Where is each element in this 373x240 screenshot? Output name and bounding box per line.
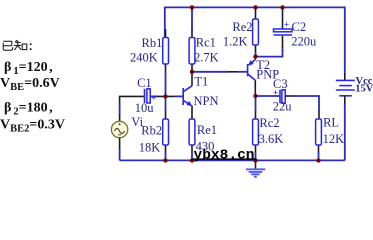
svg-text:2.7K: 2.7K [194,50,219,64]
svg-text:12K: 12K [323,132,345,146]
resistor Rc2 3.6K [253,96,284,160]
svg-text:C1: C1 [137,76,152,90]
capacitor C2 220u [274,7,318,48]
junction T2 emitter node [253,54,257,58]
junction RL bottom [316,158,320,162]
svg-text:22u: 22u [273,99,293,113]
note 已知: heading (drawn CJK strokes) [3,40,31,50]
svg-text:C3: C3 [273,77,288,91]
svg-text:NPN: NPN [194,94,219,108]
capacitor C1 10u [135,76,157,115]
wire top rail Vcc net [165,7,345,73]
svg-text:RL: RL [323,116,339,130]
svg-text:C2: C2 [292,20,307,34]
svg-text:Rc2: Rc2 [259,116,279,130]
svg-text:Re1: Re1 [197,123,217,137]
svg-text:Re2: Re2 [232,20,252,34]
svg-text:β1=120,: β1=120, [4,60,53,77]
svg-text:18K: 18K [139,140,161,154]
svg-text:220u: 220u [291,34,317,48]
svg-text:Rb1: Rb1 [142,36,163,50]
junction T2 collector output node [253,94,257,98]
resistor Re1 430 [189,119,217,160]
wire C3 to RL [285,95,295,97]
junction Rc1 top rail [190,5,194,9]
svg-text:T1: T1 [194,74,208,88]
junction C2 top rail [280,5,284,9]
wire C2 bottom to emitter node [256,47,283,57]
resistor Rb1 240K [130,29,169,96]
wire right rail lower [344,96,346,104]
ground [246,160,265,176]
svg-text:VBE=0.6V: VBE=0.6V [0,76,60,93]
junction Rb2 bottom [163,158,167,162]
wire T1 collector to T2 base [192,71,229,73]
junction ground node [253,158,257,162]
source Vi [111,115,143,160]
svg-text:Rb2: Rb2 [141,123,162,137]
resistor Re2 1.2K [223,7,259,56]
svg-text:10u: 10u [135,101,155,115]
svg-text:+: + [284,20,289,30]
wire output node to C3 [256,95,280,97]
transistor T2 PNP [248,57,280,96]
junction T1 collector node [190,70,194,74]
junction T1 base node [163,94,167,98]
resistor Rc1 2.7K [189,7,219,71]
svg-text:ybx8.cn: ybx8.cn [194,148,255,163]
junction Re1 bottom [190,158,194,162]
transistor T1 NPN [183,72,218,119]
svg-text:240K: 240K [130,50,158,64]
svg-text:1.2K: 1.2K [223,35,248,49]
svg-text:Rc1: Rc1 [196,36,216,50]
resistor RL 12K [316,116,345,161]
wire C1 to base node [150,95,158,97]
svg-text:VBE2=0.3V: VBE2=0.3V [0,118,65,135]
battery Vcc 15V [336,73,373,96]
wire Vi to C1 [120,96,144,104]
wire bottom rail ground net [120,159,345,161]
resistor Rb2 18K [139,96,169,160]
svg-text:3.6K: 3.6K [259,132,284,146]
junction Re2 top rail [253,5,257,9]
svg-text:β2=180,: β2=180, [4,101,53,118]
svg-text:15V: 15V [355,83,373,94]
capacitor C3 22u [273,77,293,113]
